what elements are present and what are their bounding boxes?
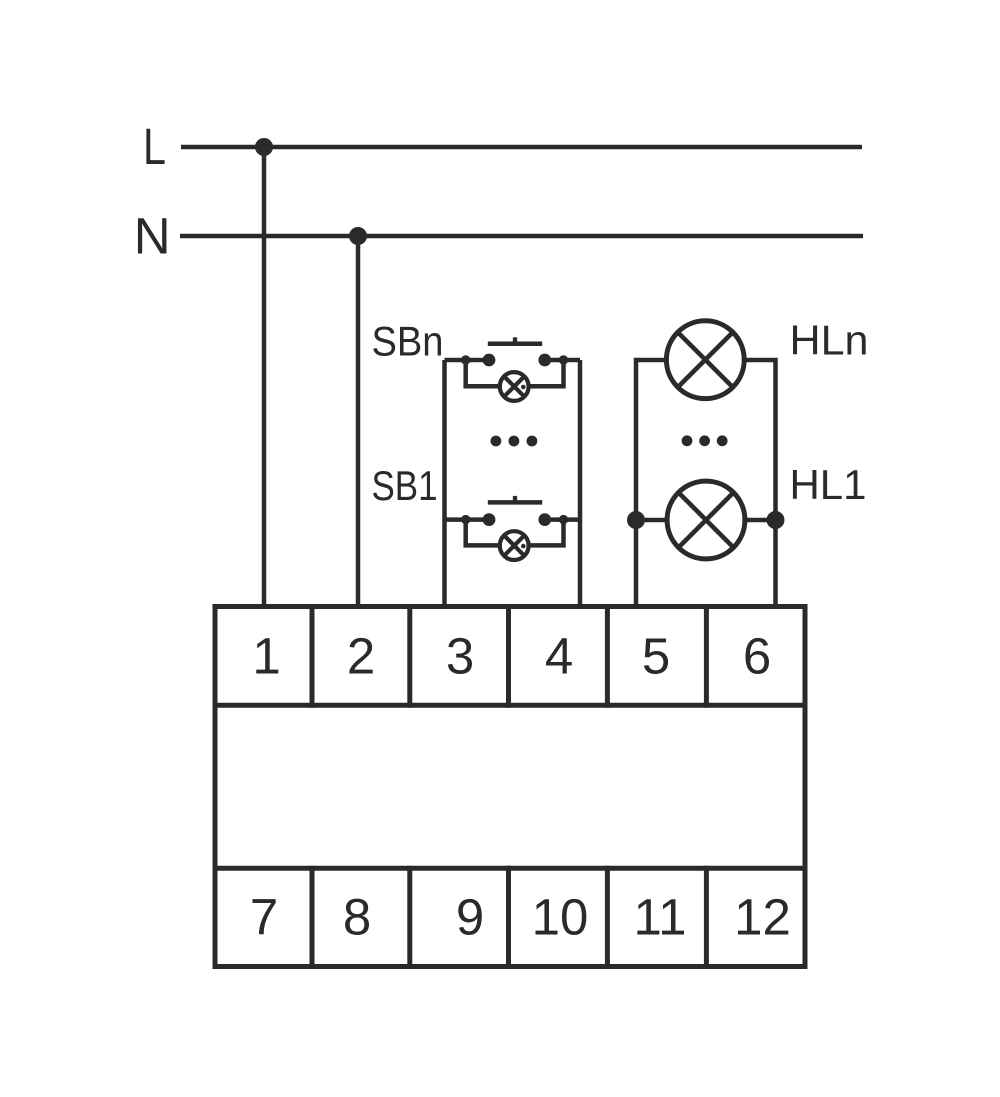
wire SB left rail xyxy=(442,360,447,606)
wire N drop to terminal 2 xyxy=(356,236,361,606)
svg-text:4: 4 xyxy=(545,628,573,685)
svg-text:11: 11 xyxy=(634,889,687,946)
svg-text:12: 12 xyxy=(734,889,791,946)
svg-text:8: 8 xyxy=(343,889,371,946)
terminal dividers bottom row xyxy=(312,866,706,969)
indicator lamp of SB1 xyxy=(466,520,564,560)
push-button switch SB1 xyxy=(445,496,581,526)
node HL1 right junction xyxy=(767,511,785,529)
svg-text:2: 2 xyxy=(347,628,375,685)
wire HL right rail xyxy=(746,360,775,606)
device terminal box outline xyxy=(215,607,805,967)
wire L drop to terminal 1 xyxy=(262,147,267,606)
wire N line xyxy=(180,234,863,239)
svg-text:N: N xyxy=(134,208,171,265)
svg-text:3: 3 xyxy=(446,628,474,685)
svg-text:9: 9 xyxy=(456,889,484,946)
ellipsis between SB1 and SBn xyxy=(491,436,538,447)
svg-text:L: L xyxy=(143,118,166,175)
wire HL1 left link xyxy=(636,518,667,523)
push-button switch SBn xyxy=(445,337,581,366)
wire SB right rail xyxy=(578,360,583,606)
node N junction xyxy=(349,227,367,245)
node HL1 left junction xyxy=(627,511,645,529)
lamp HL1 xyxy=(667,481,745,559)
svg-text:6: 6 xyxy=(743,628,771,685)
svg-text:HLn: HLn xyxy=(790,317,869,364)
svg-text:SB1: SB1 xyxy=(372,462,438,509)
terminal row separator top xyxy=(213,703,808,708)
svg-text:10: 10 xyxy=(532,889,589,946)
svg-text:1: 1 xyxy=(252,628,280,685)
svg-text:HL1: HL1 xyxy=(790,461,867,508)
node L junction xyxy=(255,138,273,156)
wire L line xyxy=(181,145,862,150)
terminal row separator bottom xyxy=(213,866,808,871)
lamp HLn xyxy=(666,321,744,399)
svg-text:SBn: SBn xyxy=(372,317,444,364)
indicator lamp of SBn xyxy=(466,360,564,401)
terminal dividers top row xyxy=(312,604,706,708)
svg-text:5: 5 xyxy=(642,628,670,685)
wire HL left rail xyxy=(636,360,664,606)
svg-text:7: 7 xyxy=(250,889,278,946)
ellipsis between HL1 and HLn xyxy=(682,435,728,446)
wire HL1 right link xyxy=(745,518,776,523)
